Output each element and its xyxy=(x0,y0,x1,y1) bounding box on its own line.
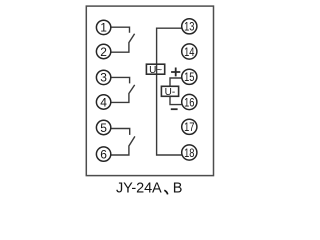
svg-text:6: 6 xyxy=(100,147,107,161)
svg-text:15: 15 xyxy=(184,70,195,84)
svg-text:U~: U~ xyxy=(149,65,162,76)
svg-text:13: 13 xyxy=(184,20,195,34)
svg-text:17: 17 xyxy=(184,120,195,134)
svg-text:4: 4 xyxy=(100,95,107,109)
svg-text:16: 16 xyxy=(184,95,195,109)
svg-text:1: 1 xyxy=(100,21,107,35)
svg-text:18: 18 xyxy=(184,146,195,160)
svg-text:B: B xyxy=(173,181,183,197)
svg-text:2: 2 xyxy=(100,45,107,59)
svg-text:14: 14 xyxy=(184,45,195,59)
svg-text:JY-24A: JY-24A xyxy=(116,181,162,197)
svg-text:5: 5 xyxy=(100,121,107,135)
svg-text:U-: U- xyxy=(165,87,176,98)
svg-text:3: 3 xyxy=(100,71,107,85)
